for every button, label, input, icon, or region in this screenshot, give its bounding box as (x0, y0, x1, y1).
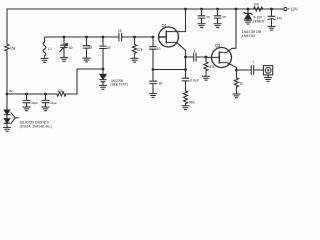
capacitor 6.8uF (182, 70, 189, 92)
variable capacitor 50 (61, 37, 68, 57)
svg-text:15k: 15k (10, 47, 16, 51)
wire (44, 56, 46, 58)
svg-text:L1: L1 (48, 47, 52, 51)
zener diode 9-10V (244, 9, 252, 19)
ground (149, 94, 156, 98)
node (270, 8, 273, 11)
node (44, 93, 47, 96)
svg-text:(1N914, 1N4148, etc.): (1N914, 1N4148, etc.) (20, 125, 52, 129)
resistor 47k horizontal (57, 92, 66, 96)
ground (233, 94, 240, 98)
node Q2 gate (205, 56, 208, 59)
wire jack ground (267, 75, 269, 78)
capacitor .05uF (23, 94, 30, 107)
diode D1 silicon (4, 110, 10, 115)
wire (6, 123, 8, 127)
ground (202, 76, 209, 80)
ground (214, 24, 221, 28)
ground (60, 57, 67, 61)
svg-text:80: 80 (107, 46, 111, 50)
wire Q1 source (166, 42, 185, 69)
wire (247, 19, 249, 20)
wire varactor coupling from tank (102, 37, 104, 46)
svg-text:10: 10 (157, 47, 161, 51)
wire Q1 drain (166, 9, 185, 32)
node feedback tap (152, 68, 155, 71)
wire bottom bias rail (7, 93, 57, 95)
resistor 560 (183, 91, 187, 106)
ground (131, 58, 138, 62)
terminal +12V (284, 7, 287, 10)
jack J1 output (263, 66, 272, 75)
node bypass 2 (216, 8, 219, 11)
svg-text:.01µF: .01µF (49, 101, 57, 105)
svg-text:.1: .1 (193, 49, 196, 53)
ground (265, 78, 272, 82)
capacitor .1 coupling (194, 53, 206, 61)
ground (41, 58, 48, 62)
wire coil drop (44, 37, 46, 42)
resistor 15k (5, 44, 9, 51)
ground (244, 20, 251, 24)
svg-text:25: 25 (118, 29, 122, 33)
svg-text:560: 560 (189, 100, 195, 104)
wire left border (6, 9, 8, 44)
svg-text:Q1: Q1 (162, 23, 168, 28)
node varactor (102, 68, 105, 71)
ground (268, 26, 275, 30)
callout brace diodes (11, 113, 18, 124)
ground (198, 24, 205, 28)
resistor 1k (234, 70, 238, 94)
node (184, 8, 187, 11)
wire diode drop (6, 94, 8, 110)
svg-text:20: 20 (88, 45, 92, 49)
node (102, 36, 105, 39)
svg-text:47k: 47k (209, 65, 215, 69)
wire output (237, 69, 251, 71)
node (25, 93, 28, 96)
transistor Q2 (212, 48, 232, 68)
capacitor .05 bypass 2 (214, 9, 221, 24)
node Q1 gate (152, 36, 155, 39)
capacitor .1 output (251, 66, 263, 75)
capacitor 10 feedback (150, 37, 157, 70)
capacitor 80 feedback (150, 70, 157, 94)
resistor 100 (254, 7, 263, 11)
node (85, 36, 88, 39)
svg-text:1N4740: 1N4740 (242, 34, 255, 38)
capacitor 20 (83, 37, 90, 58)
node output (235, 69, 238, 72)
svg-text:ZENER: ZENER (253, 20, 265, 24)
resistor 47k gate (204, 57, 208, 76)
svg-text:470: 470 (277, 16, 283, 20)
ground (83, 58, 90, 62)
svg-text:Q2: Q2 (215, 43, 221, 48)
wire (102, 82, 104, 86)
capacitor .01uF (42, 94, 49, 107)
ground (23, 107, 30, 111)
node (133, 36, 136, 39)
wire Q2 drain (219, 9, 236, 52)
capacitor 80 (100, 46, 107, 69)
arrow of variable capacitor (60, 44, 68, 52)
wire coupling tap (186, 56, 194, 58)
wire top +9V rail (7, 8, 283, 10)
wire left lower (6, 51, 8, 94)
wire step to varactor (66, 69, 103, 94)
varactor MV2209 (100, 74, 106, 81)
svg-text:+12V: +12V (288, 7, 298, 12)
diode D2 silicon (4, 119, 10, 124)
node (63, 36, 66, 39)
ground (3, 127, 10, 131)
svg-text:.05µF: .05µF (30, 101, 38, 105)
svg-text:100: 100 (253, 2, 259, 6)
node (184, 68, 187, 71)
ground (42, 107, 49, 111)
ground (99, 85, 106, 89)
wire feedback tap to source (153, 69, 186, 71)
transistor Q1 (159, 27, 179, 47)
wire tank rail (45, 36, 154, 38)
svg-text:47k: 47k (57, 89, 63, 93)
svg-text:.05: .05 (206, 15, 211, 19)
ground (182, 106, 189, 110)
svg-text:.05: .05 (222, 15, 227, 19)
svg-text:1k: 1k (240, 82, 244, 86)
svg-text:80: 80 (159, 81, 163, 85)
wire (6, 115, 8, 119)
wire (102, 69, 104, 74)
node (235, 8, 238, 11)
inductor L1 (43, 42, 46, 56)
capacitor 470 (268, 9, 275, 26)
capacitor .05 bypass (198, 9, 205, 24)
node bypass 1 (200, 8, 203, 11)
svg-text:.1: .1 (252, 59, 255, 63)
svg-text:6.8 µF: 6.8 µF (190, 79, 199, 83)
svg-text:(SEE TEXT): (SEE TEXT) (110, 83, 127, 87)
node source tap (184, 56, 187, 59)
svg-text:47k: 47k (137, 48, 143, 52)
wire Q2 source (219, 63, 236, 70)
wire gate (206, 56, 219, 58)
svg-text:9V: 9V (9, 89, 13, 93)
svg-text:50: 50 (69, 46, 73, 50)
capacitor 25 series (119, 33, 122, 41)
node bias junction (6, 93, 9, 96)
node zener (247, 8, 250, 11)
resistor 47k tank (132, 37, 136, 58)
